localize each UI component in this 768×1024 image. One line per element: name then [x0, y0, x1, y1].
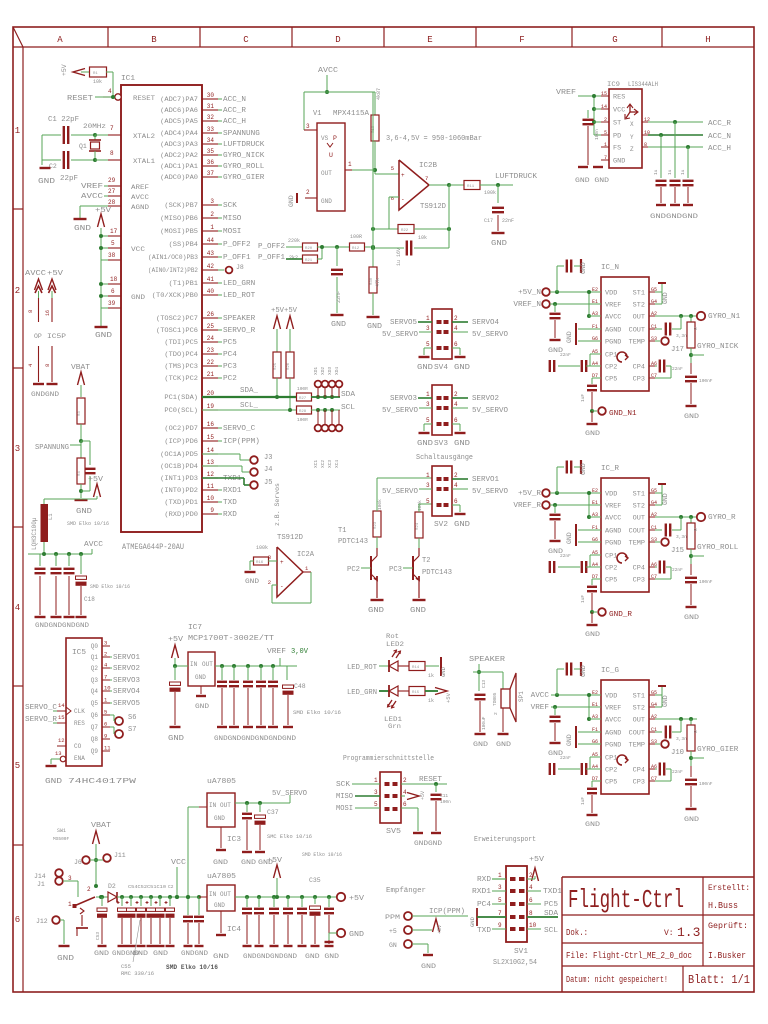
svg-text:(INT0)PD2: (INT0)PD2 — [160, 487, 198, 494]
IC1 GND pins 18 6 39 stubs — [108, 283, 121, 285]
wire net LUFTDRUCK — [218, 143, 222, 145]
svg-text:7: 7 — [104, 674, 107, 681]
svg-text:3: 3 — [498, 884, 502, 891]
VBAT supply arrow — [78, 372, 85, 385]
svg-text:(OC2)PD7: (OC2)PD7 — [164, 425, 198, 432]
svg-text:P: P — [333, 135, 337, 142]
IC9 left pin stubs — [601, 95, 609, 97]
svg-text:RES: RES — [613, 94, 626, 101]
svg-text:1uF: 1uF — [580, 797, 586, 805]
wire net GYRO_GIER — [218, 176, 222, 178]
wire net SERVO_R — [218, 329, 222, 331]
connector SV4 pads — [437, 320, 442, 324]
svg-text:22nF: 22nF — [560, 553, 571, 559]
ground at IC7 input cap — [170, 726, 181, 728]
pad J17 at TEMP — [655, 340, 660, 342]
svg-text:-: - — [280, 583, 284, 590]
svg-text:LED_ROT: LED_ROT — [347, 664, 377, 672]
cap at VREF of IC_R — [553, 503, 557, 507]
svg-text:GND: GND — [288, 195, 295, 207]
wire SV2 pin1 to R23 — [376, 478, 378, 511]
svg-text:CP4: CP4 — [633, 767, 646, 774]
svg-text:AGND: AGND — [605, 730, 622, 737]
svg-text:J4: J4 — [264, 466, 272, 474]
svg-text:23: 23 — [207, 347, 215, 354]
svg-text:R3: R3 — [78, 411, 82, 416]
svg-text:Blatt: 1/1: Blatt: 1/1 — [688, 973, 750, 987]
svg-text:3: 3 — [210, 198, 214, 205]
wire VDD to AVCC of IC_G — [588, 695, 590, 719]
svg-text:J3: J3 — [264, 454, 272, 462]
svg-text:100R: 100R — [297, 417, 308, 423]
svg-text:GND: GND — [662, 695, 669, 707]
svg-text:1: 1 — [68, 901, 72, 908]
capacitor C11 at RESET — [435, 784, 437, 792]
svg-text:IC3: IC3 — [227, 836, 241, 844]
VCC rail wire — [122, 896, 207, 898]
svg-text:CP4: CP4 — [633, 565, 646, 572]
+5V supply arrow at IC1 VCC — [98, 214, 105, 227]
svg-text:GNDGNDGNDGNDGND: GNDGNDGNDGNDGND — [214, 735, 282, 742]
svg-text:100k: 100k — [377, 499, 383, 510]
svg-text:R20: R20 — [305, 247, 313, 251]
wire net ACC_N — [218, 98, 222, 100]
svg-text:RXD1: RXD1 — [223, 487, 241, 495]
svg-text:GND: GND — [213, 859, 228, 866]
COUT cap of IC_N — [655, 328, 662, 330]
svg-text:5: 5 — [426, 341, 430, 348]
svg-text:P_OFF2: P_OFF2 — [258, 243, 285, 251]
svg-text:4: 4 — [529, 884, 533, 891]
svg-text:(ADC2)PA2: (ADC2)PA2 — [160, 152, 198, 159]
svg-text:SV2: SV2 — [434, 521, 448, 529]
svg-text:ACC_N: ACC_N — [708, 133, 731, 141]
svg-text:C48: C48 — [294, 683, 306, 690]
pad J10 at TEMP — [655, 743, 660, 745]
svg-text:2: 2 — [403, 777, 407, 784]
wire net TXD — [218, 501, 222, 503]
svg-text:OUT: OUT — [633, 314, 646, 321]
wire net PC4 — [218, 353, 222, 355]
svg-text:100nF: 100nF — [699, 781, 713, 787]
svg-text:uA7805: uA7805 — [207, 873, 236, 881]
svg-text:Q8: Q8 — [91, 736, 99, 743]
svg-text:GND: GND — [131, 294, 145, 301]
svg-text:SW1: SW1 — [57, 828, 66, 834]
svg-text:100R: 100R — [297, 386, 308, 392]
svg-text:Rot: Rot — [386, 633, 399, 640]
svg-text:5: 5 — [374, 801, 378, 808]
wire VREF to IC9 — [578, 95, 601, 97]
svg-text:SERVO_R: SERVO_R — [223, 327, 256, 335]
svg-text:uA7805: uA7805 — [207, 778, 236, 786]
svg-text:(T0/XCK)PB0: (T0/XCK)PB0 — [152, 292, 199, 299]
svg-text:CLK: CLK — [74, 708, 85, 715]
svg-text:+5: +5 — [389, 928, 397, 935]
svg-text:CP3: CP3 — [633, 376, 646, 383]
ground right of SV3 — [452, 423, 460, 425]
svg-text:6: 6 — [15, 915, 20, 925]
svg-text:GNDGNDGNDGND: GNDGNDGNDGND — [35, 622, 89, 629]
IC1 pin 43 (AIN1/OC0)PB3 — [202, 256, 218, 258]
svg-text:16: 16 — [45, 310, 51, 316]
svg-text:+5V: +5V — [420, 791, 426, 800]
svg-text:C1 22pF: C1 22pF — [48, 116, 79, 124]
grounds at speaker — [475, 733, 486, 735]
IC1 pin 22 (TMS)PC3 — [202, 365, 218, 367]
V1 pin 1 OUT stub — [345, 169, 352, 171]
svg-text:AGND: AGND — [131, 204, 149, 211]
svg-text:13: 13 — [55, 750, 62, 757]
OUT net of IC_N — [655, 315, 697, 317]
svg-text:4: 4 — [454, 482, 458, 489]
IC1 pin 24 (TDI)PC5 — [202, 341, 218, 343]
svg-text:R12: R12 — [352, 247, 360, 251]
svg-text:IC2B: IC2B — [419, 162, 437, 170]
svg-text:2: 2 — [15, 286, 20, 296]
switch SW1 lever — [74, 897, 95, 906]
svg-text:J5: J5 — [264, 479, 272, 487]
svg-text:R30: R30 — [370, 277, 374, 285]
svg-text:34: 34 — [207, 137, 215, 144]
cap at VREF of IC_N — [553, 302, 557, 306]
svg-text:12: 12 — [207, 471, 215, 478]
capacitor C20 on AVCC rail — [39, 554, 41, 566]
svg-text:CO: CO — [74, 743, 82, 750]
svg-text:11: 11 — [207, 483, 215, 490]
svg-text:CP4: CP4 — [633, 364, 646, 371]
svg-text:GND: GND — [321, 198, 332, 205]
svg-text:SMD Elko 10/16: SMD Elko 10/16 — [90, 583, 130, 590]
svg-text:ACC_H: ACC_H — [708, 145, 731, 153]
ground below IC1 GND pins — [95, 326, 108, 328]
resistor R11 100k — [449, 184, 465, 186]
svg-text:33: 33 — [207, 126, 215, 133]
svg-text:9: 9 — [498, 922, 502, 929]
svg-text:GYRO_NICK: GYRO_NICK — [697, 343, 739, 351]
svg-text:VBAT: VBAT — [71, 364, 90, 372]
svg-text:IC_G: IC_G — [601, 667, 619, 675]
net SDA bold wire — [202, 396, 296, 398]
svg-text:VREF: VREF — [605, 503, 622, 510]
svg-text:21: 21 — [207, 371, 215, 378]
svg-text:CP5: CP5 — [605, 376, 618, 383]
svg-text:TS912D: TS912D — [277, 534, 303, 542]
COUT cap of IC_R — [655, 529, 662, 531]
svg-text:LUFTDRUCK: LUFTDRUCK — [495, 173, 538, 181]
AGND PGND rotated grounds of IC_N — [578, 328, 601, 330]
frame column dividers — [107, 27, 109, 47]
ST1 ST2 ground of IC_N — [655, 291, 662, 293]
+5V arrow left — [274, 316, 281, 329]
ground right of SV4 — [452, 347, 460, 349]
svg-text:R22: R22 — [401, 229, 409, 233]
svg-text:1uF: 1uF — [580, 595, 586, 603]
junction below filter resistor of IC_G — [690, 751, 692, 766]
+5V arrow right — [287, 316, 294, 329]
supply VREF_R of IC_R — [542, 501, 550, 509]
svg-text:SV4: SV4 — [434, 364, 448, 372]
wire AVCC to MPX and reference — [326, 75, 328, 92]
svg-text:GNDGNDGND: GNDGNDGND — [650, 213, 698, 220]
svg-text:GND: GND — [580, 463, 587, 475]
svg-text:TDB05: TDB05 — [492, 692, 498, 706]
svg-text:J11: J11 — [114, 852, 126, 859]
svg-text:22nF: 22nF — [672, 769, 683, 775]
svg-text:(ADC5)PA5: (ADC5)PA5 — [160, 118, 198, 125]
IC4 GND lead — [220, 911, 222, 933]
svg-text:SERVO_R: SERVO_R — [25, 716, 58, 724]
svg-text:1u: 1u — [680, 169, 686, 175]
decoupling cap at VDD of IC_R — [555, 491, 559, 495]
svg-text:S7: S7 — [128, 726, 136, 734]
svg-text:Datum: nicht gespeichert!: Datum: nicht gespeichert! — [566, 975, 668, 985]
svg-text:22nF: 22nF — [560, 755, 571, 761]
svg-text:32: 32 — [207, 114, 215, 121]
svg-text:IN: IN — [209, 891, 217, 898]
wire net SCK — [218, 204, 222, 206]
svg-text:MPX4115A: MPX4115A — [333, 110, 370, 118]
svg-text:Q0: Q0 — [91, 643, 99, 650]
elko C18 on AVCC rail — [80, 554, 82, 574]
IC1 pin 28 AGND stub — [108, 205, 121, 207]
CP1 CP2 caps of IC_N — [590, 353, 601, 355]
svg-text:RES: RES — [74, 720, 85, 727]
wire VCC label down to rail — [176, 867, 178, 897]
IC7 GND lead — [200, 686, 202, 694]
resistor R4 divider bottom — [80, 441, 82, 458]
svg-text:z.B. Servos: z.B. Servos — [274, 483, 281, 526]
op-amp IC2B triangle — [399, 160, 429, 210]
svg-text:+5V: +5V — [349, 895, 365, 903]
svg-text:SMD Elko 10/16: SMD Elko 10/16 — [67, 520, 109, 527]
ground at IC5 ENA — [50, 759, 52, 764]
svg-text:GNDGND: GNDGND — [414, 840, 442, 847]
IC1 pin 3 (SCK)PB7 — [202, 204, 218, 206]
svg-text:ENA: ENA — [74, 755, 85, 762]
svg-text:PC0(SCL): PC0(SCL) — [164, 407, 198, 414]
resistor R10 vertical — [371, 115, 379, 141]
resistor R28 on SCL — [297, 406, 312, 414]
IC1 pin 2 (MISO)PB6 — [202, 217, 218, 219]
svg-text:1: 1 — [210, 224, 214, 231]
svg-text:4k87: 4k87 — [376, 88, 382, 100]
svg-text:GND GND: GND GND — [575, 177, 609, 184]
svg-text:COUT: COUT — [629, 327, 646, 334]
svg-text:SCL: SCL — [341, 404, 355, 412]
svg-text:SERVO5: SERVO5 — [113, 700, 140, 708]
svg-text:5: 5 — [391, 165, 394, 172]
svg-text:TS912D: TS912D — [420, 203, 446, 211]
capacitor C17 22nF at LUFTDRUCK — [497, 185, 499, 203]
svg-text:Empfänger: Empfänger — [386, 887, 426, 895]
svg-text:GYRO_GIER: GYRO_GIER — [697, 746, 739, 754]
svg-text:GND: GND — [684, 614, 699, 621]
svg-text:SPEAKER: SPEAKER — [223, 315, 256, 323]
svg-text:22: 22 — [207, 359, 215, 366]
svg-text:ACC_N: ACC_N — [223, 96, 246, 104]
svg-text:GND: GND — [684, 816, 699, 823]
svg-text:R26: R26 — [287, 362, 291, 370]
svg-text:R16: R16 — [256, 561, 264, 565]
svg-text:ACC_R: ACC_R — [223, 107, 247, 115]
svg-text:7: 7 — [604, 155, 607, 161]
IC5 right pins — [102, 645, 110, 647]
svg-text:VDD: VDD — [605, 290, 618, 297]
filter cap of IC_G — [690, 766, 692, 777]
svg-text:J12: J12 — [36, 918, 48, 925]
svg-text:100nF: 100nF — [699, 579, 713, 585]
frame top letter strip line — [13, 46, 754, 48]
pad S7 — [110, 726, 114, 728]
OUT net of IC_G — [655, 718, 697, 720]
svg-text:SMD Elko 10/16: SMD Elko 10/16 — [302, 851, 342, 858]
svg-text:R23: R23 — [374, 521, 378, 529]
svg-text:Y: Y — [630, 134, 634, 141]
svg-text:Grn: Grn — [388, 723, 401, 730]
svg-text:Dok.:: Dok.: — [566, 928, 588, 938]
wire SV5 pin2 RESET — [401, 783, 447, 785]
svg-text:(TXD)PD1: (TXD)PD1 — [164, 499, 198, 506]
svg-text:L1: L1 — [47, 513, 54, 520]
svg-text:ST1: ST1 — [633, 491, 646, 498]
svg-text:VDD: VDD — [605, 491, 618, 498]
svg-text:22nF: 22nF — [672, 567, 683, 573]
svg-text:(TMS)PC3: (TMS)PC3 — [164, 363, 198, 370]
svg-text:J14: J14 — [34, 873, 46, 880]
supply VREF_N of IC_N — [542, 300, 550, 308]
svg-text:Q7: Q7 — [91, 724, 99, 731]
svg-text:C13: C13 — [481, 680, 487, 688]
svg-text:Schaltausgänge: Schaltausgänge — [416, 454, 473, 462]
svg-text:PGND: PGND — [605, 742, 622, 749]
svg-text:R4: R4 — [78, 471, 82, 476]
svg-text:100k: 100k — [256, 545, 268, 551]
ground at T2 — [413, 599, 426, 601]
svg-text:T1: T1 — [338, 527, 346, 535]
pad J5 — [202, 477, 244, 479]
svg-text:P_OFF1: P_OFF1 — [258, 254, 285, 262]
ground at Empfaenger — [412, 943, 428, 945]
svg-text:GND: GND — [367, 323, 382, 331]
svg-text:GND: GND — [417, 364, 433, 372]
+5V arrow at Empfaenger — [412, 929, 432, 931]
IC1 pin 7 XTAL2 stub — [108, 134, 121, 136]
ground bottom of IC_G — [587, 814, 598, 816]
elko C37 — [259, 803, 261, 812]
svg-text:GND GND: GND GND — [305, 953, 339, 960]
ground right of SV2 — [452, 504, 460, 506]
IC1 pin 1 (MOSI)PB5 — [202, 230, 218, 232]
wire net SPANNUNG — [218, 132, 222, 134]
grounds at IC9 — [578, 166, 588, 168]
svg-text:J15: J15 — [671, 547, 684, 555]
IC1 pin 26 (TOSC2)PC7 — [202, 317, 218, 319]
svg-text:GND: GND — [473, 741, 488, 748]
svg-text:AVCC: AVCC — [81, 193, 103, 201]
svg-text:LED1: LED1 — [384, 716, 402, 723]
svg-text:+: + — [401, 172, 405, 179]
IC_N rotation arrow symbol — [617, 352, 627, 362]
svg-text:2: 2 — [306, 189, 310, 196]
feedback capacitor C? — [373, 247, 404, 249]
svg-text:PC3: PC3 — [389, 566, 402, 574]
op-amp IC2A triangle — [277, 547, 303, 597]
svg-text:TEMP: TEMP — [629, 540, 646, 547]
svg-text:SPANNUNG: SPANNUNG — [223, 130, 260, 138]
svg-text:XD1: XD1 — [313, 367, 319, 375]
svg-text:22nF: 22nF — [502, 218, 514, 224]
svg-text:+: + — [280, 559, 284, 566]
svg-text:GND: GND — [133, 950, 148, 957]
svg-text:Q1: Q1 — [91, 654, 99, 661]
svg-text:3: 3 — [104, 640, 107, 647]
svg-text:Q5: Q5 — [91, 700, 99, 707]
svg-text:(ICP)PD6: (ICP)PD6 — [164, 438, 198, 445]
svg-text:1: 1 — [604, 142, 607, 148]
output filter resistor of IC_N — [690, 316, 692, 322]
svg-text:(TCK)PC2: (TCK)PC2 — [164, 375, 198, 382]
svg-text:3,0V: 3,0V — [291, 648, 309, 656]
svg-text:100nF: 100nF — [699, 378, 713, 384]
IC1 pin 4 RESET bubble — [115, 94, 121, 100]
gyro interface IC_G box — [601, 680, 649, 794]
svg-text:TXD: TXD — [223, 499, 237, 507]
svg-text:2: 2 — [210, 211, 214, 218]
AGND PGND rotated grounds of IC_G — [578, 731, 601, 733]
svg-text:MCP1700T-3002E/TT: MCP1700T-3002E/TT — [188, 635, 274, 643]
svg-text:5: 5 — [426, 417, 430, 424]
svg-text:2: 2 — [268, 579, 271, 586]
svg-text:GYRO_ROLL: GYRO_ROLL — [223, 163, 264, 171]
svg-text:OUT: OUT — [220, 802, 231, 809]
svg-text:1: 1 — [374, 777, 378, 784]
svg-text:10k: 10k — [93, 79, 102, 85]
svg-text:CP1: CP1 — [605, 553, 618, 560]
svg-text:+5V: +5V — [529, 856, 545, 864]
svg-text:5: 5 — [498, 897, 502, 904]
svg-text:Q9: Q9 — [91, 748, 99, 755]
ground left of SV3 — [424, 423, 432, 425]
wire net RXD — [218, 513, 222, 515]
svg-text:(SCK)PB7: (SCK)PB7 — [164, 202, 198, 209]
svg-text:100R: 100R — [350, 234, 362, 240]
wire J12 ground — [60, 919, 64, 921]
svg-text:(TOSC2)PC7: (TOSC2)PC7 — [156, 315, 198, 322]
svg-text:(RXD)PD0: (RXD)PD0 — [164, 511, 198, 518]
svg-text:43: 43 — [207, 250, 215, 257]
svg-text:22nF: 22nF — [672, 366, 683, 372]
svg-text:SERVO4: SERVO4 — [113, 688, 140, 696]
svg-text:XTAL1: XTAL1 — [133, 158, 155, 165]
wire IC5P power pins upper — [38, 291, 40, 298]
svg-text:MOSI: MOSI — [336, 805, 353, 813]
svg-text:6: 6 — [529, 897, 533, 904]
svg-text:+5V: +5V — [95, 207, 112, 215]
wire AGND to ground — [80, 205, 108, 207]
svg-text:GND: GND — [662, 292, 669, 304]
svg-text:GND: GND — [95, 332, 112, 340]
svg-text:CP5: CP5 — [605, 577, 618, 584]
IC3 GND lead — [220, 827, 222, 848]
svg-text:XC3: XC3 — [327, 460, 333, 468]
svg-text:(TDI)PC5: (TDI)PC5 — [164, 339, 198, 346]
svg-text:SV5: SV5 — [386, 828, 401, 836]
svg-text:V1: V1 — [313, 110, 321, 118]
wire VDD to AVCC of IC_N — [588, 292, 590, 316]
svg-text:CP2: CP2 — [605, 364, 618, 371]
svg-text:AVCC: AVCC — [84, 541, 103, 549]
